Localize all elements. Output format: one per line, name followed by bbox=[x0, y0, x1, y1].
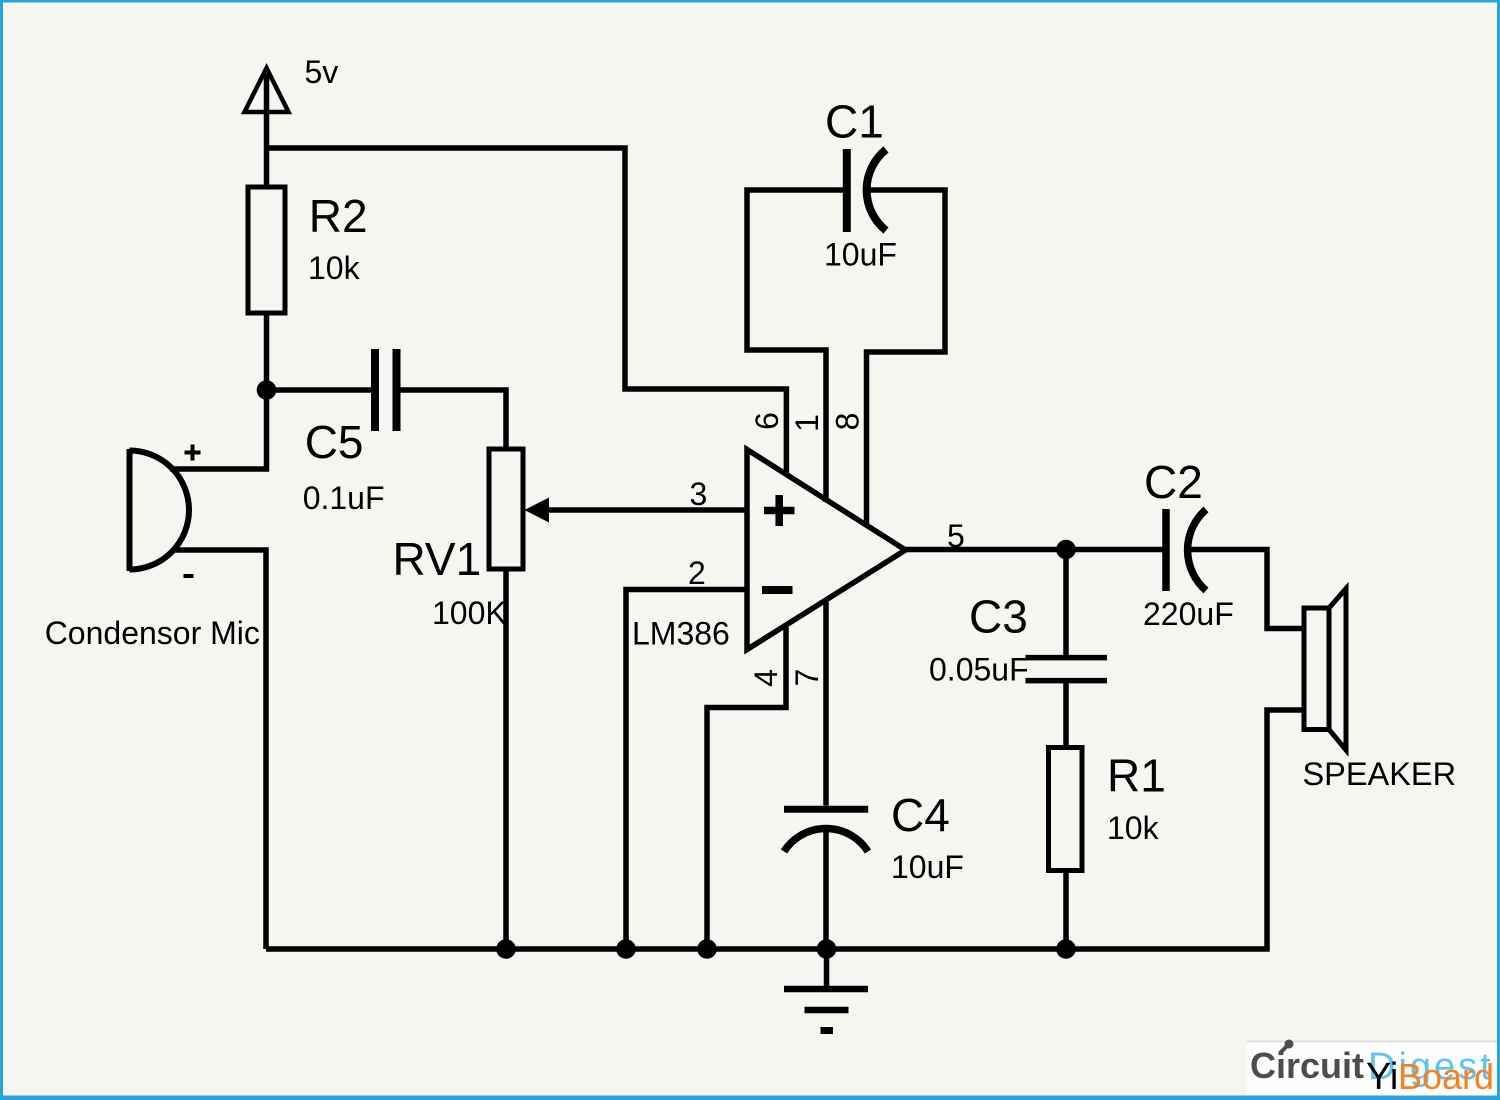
svg-text:R1: R1 bbox=[1107, 750, 1166, 802]
svg-text:7: 7 bbox=[789, 669, 825, 687]
svg-text:10uF: 10uF bbox=[824, 237, 897, 273]
svg-text:C4: C4 bbox=[891, 789, 950, 841]
svg-text:C5: C5 bbox=[305, 416, 364, 468]
svg-text:RV1: RV1 bbox=[393, 533, 482, 585]
svg-text:Circuit: Circuit bbox=[1250, 1045, 1364, 1086]
svg-text:R2: R2 bbox=[309, 190, 368, 242]
svg-text:220uF: 220uF bbox=[1143, 596, 1234, 632]
svg-text:100K: 100K bbox=[432, 595, 507, 631]
svg-text:10uF: 10uF bbox=[891, 849, 964, 885]
svg-text:5: 5 bbox=[947, 518, 965, 554]
svg-text:1: 1 bbox=[789, 414, 825, 432]
svg-text:0.05uF: 0.05uF bbox=[929, 652, 1029, 688]
svg-text:C1: C1 bbox=[825, 96, 884, 148]
svg-text:6: 6 bbox=[749, 412, 785, 430]
svg-text:SPEAKER: SPEAKER bbox=[1303, 756, 1457, 792]
svg-text:LM386: LM386 bbox=[632, 616, 730, 652]
svg-text:4: 4 bbox=[748, 669, 784, 687]
svg-text:Condensor Mic: Condensor Mic bbox=[45, 615, 260, 651]
svg-text:0.1uF: 0.1uF bbox=[303, 480, 385, 516]
svg-text:8: 8 bbox=[830, 413, 866, 431]
svg-text:Board: Board bbox=[1398, 1056, 1494, 1097]
svg-text:2: 2 bbox=[688, 555, 706, 591]
svg-text:5v: 5v bbox=[305, 54, 339, 90]
svg-text:3: 3 bbox=[690, 476, 708, 512]
svg-text:10k: 10k bbox=[1107, 810, 1160, 846]
svg-text:Yi: Yi bbox=[1366, 1056, 1398, 1098]
svg-text:10k: 10k bbox=[308, 250, 361, 286]
svg-text:C2: C2 bbox=[1144, 456, 1203, 508]
svg-text:C3: C3 bbox=[969, 591, 1028, 643]
